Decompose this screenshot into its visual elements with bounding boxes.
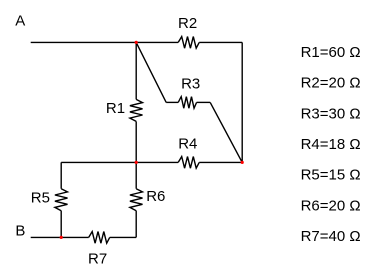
junction J1 bbox=[135, 41, 138, 44]
svg-text:R1=60 Ω: R1=60 Ω bbox=[301, 44, 361, 61]
svg-text:R6=20 Ω: R6=20 Ω bbox=[301, 197, 361, 214]
svg-text:B: B bbox=[15, 222, 25, 239]
wire left corner to junction J3 bbox=[61, 161, 136, 163]
wire R7 right lead to bottom corner bbox=[110, 236, 137, 238]
svg-text:R7=40 Ω: R7=40 Ω bbox=[301, 228, 361, 245]
resistor R6 bbox=[130, 189, 143, 211]
svg-text:R4=18 Ω: R4=18 Ω bbox=[301, 136, 361, 153]
junction J3 bbox=[135, 161, 138, 164]
junction J2 bbox=[241, 161, 244, 164]
wire right vertical from R2 corner down to junction J2 bbox=[241, 42, 243, 162]
wire diagonal R3 to junction J2 bbox=[210, 102, 242, 162]
wire R6 top lead from J3 bbox=[135, 162, 137, 188]
svg-text:R4: R4 bbox=[178, 135, 197, 152]
wire R5 bottom lead to junction J4 bbox=[60, 211, 62, 238]
wire R1 bottom lead to junction J3 bbox=[135, 121, 137, 162]
wire R3 right lead bbox=[197, 101, 211, 103]
wire R1 top lead from J1 bbox=[135, 42, 137, 99]
junction J4 bbox=[60, 236, 63, 239]
wire J3 to R4 left lead bbox=[136, 161, 178, 163]
svg-text:R3: R3 bbox=[181, 75, 200, 92]
svg-text:R5: R5 bbox=[31, 190, 50, 207]
wire B terminal to junction J4 bbox=[31, 236, 62, 238]
resistor R1 bbox=[130, 99, 143, 121]
svg-text:R5=15 Ω: R5=15 Ω bbox=[301, 167, 361, 184]
svg-text:R3=30 Ω: R3=30 Ω bbox=[301, 105, 361, 122]
resistor R4 bbox=[178, 157, 199, 169]
svg-text:R2=20 Ω: R2=20 Ω bbox=[301, 75, 361, 92]
wire R5 top lead from left corner bbox=[60, 162, 62, 188]
wire J4 to R7 left lead bbox=[61, 236, 88, 238]
resistor R7 bbox=[89, 232, 110, 244]
wire diagonal J1 to R3 left bbox=[136, 42, 166, 102]
wire R6 bottom lead to bottom corner bbox=[135, 211, 137, 238]
resistor R2 bbox=[178, 37, 199, 49]
resistor R5 bbox=[55, 189, 68, 211]
svg-text:A: A bbox=[15, 13, 25, 30]
wire J1 to R2 left lead bbox=[136, 41, 178, 43]
svg-text:R6: R6 bbox=[146, 188, 165, 205]
resistor R3 bbox=[178, 97, 196, 109]
svg-text:R2: R2 bbox=[178, 15, 197, 32]
wire R2 right lead to top-right corner bbox=[199, 41, 242, 43]
wire A terminal to junction J1 bbox=[31, 41, 137, 43]
wire R3 left lead bbox=[166, 101, 178, 103]
wire R4 right lead to junction J2 bbox=[199, 161, 242, 163]
svg-text:R1: R1 bbox=[106, 100, 125, 117]
svg-text:R7: R7 bbox=[88, 251, 107, 268]
